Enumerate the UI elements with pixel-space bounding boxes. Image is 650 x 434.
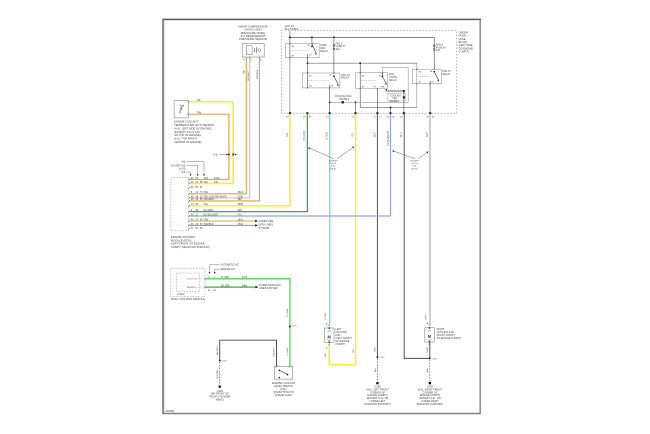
wire: PWR/FAN 85 down to fuse box exit (YEL feed) <box>289 58 291 114</box>
svg-text:410: 410 <box>214 181 219 184</box>
svg-text:100358: 100358 <box>165 409 174 413</box>
svg-text:835: 835 <box>238 209 243 212</box>
svg-text:(V8-S): (V8-S) <box>411 168 418 170</box>
svg-text:COMPT, NEAR FAN SHROUD): COMPT, NEAR FAN SHROUD) <box>171 245 210 249</box>
svg-text:COMPUTER: COMPUTER <box>259 219 274 223</box>
svg-text:BLK: BLK <box>375 347 377 352</box>
wire: DK GRN HVAC serial data <box>206 286 256 288</box>
svg-text:DK GRN: DK GRN <box>303 131 306 141</box>
pin labels PWR/FAN relay <box>292 45 313 57</box>
svg-text:RELAY: RELAY <box>320 50 328 53</box>
svg-text:HVAC CONTROL MODULE: HVAC CONTROL MODULE <box>171 297 205 301</box>
svg-text:COOLT LVL: COOLT LVL <box>186 279 198 281</box>
svg-text:BLK/WHT: BLK/WHT <box>274 346 276 356</box>
module: ECM dashed box <box>171 178 189 231</box>
svg-text:RELAY: RELAY <box>341 77 349 80</box>
svg-text:TAN: TAN <box>197 111 202 114</box>
wire: fuse F1 to FAN LO pin 30 <box>333 50 335 73</box>
svg-text:GRY/WHT: GRY/WHT <box>248 70 250 81</box>
svg-text:DK GRN: DK GRN <box>204 209 214 212</box>
svg-text:YEL: YEL <box>352 132 355 137</box>
svg-text:(6.6L: TOP FRONT: (6.6L: TOP FRONT <box>174 137 197 141</box>
sensor: A/C refrigerant pressure sensor label <box>238 24 267 41</box>
motor M2 right cooling fan <box>428 324 430 326</box>
svg-text:40A: 40A <box>436 49 441 52</box>
svg-text:RADIATOR SUPPORT): RADIATOR SUPPORT) <box>417 403 443 406</box>
svg-text:LINES SYSTEM: LINES SYSTEM <box>259 286 278 290</box>
svg-text:GRY: GRY <box>425 314 427 319</box>
wire: YEL ECT to ECM row 2 <box>189 102 233 184</box>
wire: DK BLU drop inside box <box>390 108 392 114</box>
svg-text:HEAD): HEAD) <box>216 399 224 402</box>
wire: right fan B to ground junction <box>429 343 431 359</box>
wire W6 DK BLU/WHT: fuse box to ECM row 9 <box>190 114 391 216</box>
svg-text:AUTOMATIC A/C: AUTOMATIC A/C <box>221 264 240 267</box>
relay K2 FAN LO RELAY <box>302 73 340 88</box>
svg-text:BLK: BLK <box>375 368 377 372</box>
relay pin tick slashes <box>289 43 435 90</box>
relay K4 FAN HI RELAY <box>412 69 441 84</box>
sensor: A/C refrigerant pressure sensor <box>242 44 264 58</box>
wire: PWR/FAN 87 to relay coil feed rail <box>307 58 309 64</box>
label: PWR/FAN RELAY <box>320 44 328 53</box>
wire: FAN HI coil return <box>416 84 418 108</box>
svg-text:YEL: YEL <box>204 181 209 184</box>
svg-text:TAN: TAN <box>242 69 245 74</box>
svg-text:2514: 2514 <box>238 191 244 194</box>
wire W4 YEL: fuse box to left fan pin B <box>329 114 355 364</box>
svg-text:ORN/BLK: ORN/BLK <box>204 198 215 201</box>
svg-text:473: 473 <box>238 213 243 216</box>
svg-text:TAN: TAN <box>204 177 209 180</box>
svg-text:OF ENGINE COMPT): OF ENGINE COMPT) <box>437 336 462 340</box>
pin numbers below fuse box <box>286 116 435 119</box>
svg-text:ENGINE COOLANT: ENGINE COOLANT <box>174 120 198 124</box>
node: bus junction C <box>333 36 335 38</box>
svg-text:(4.6L: LEFT SIDE OF ENGINE): (4.6L: LEFT SIDE OF ENGINE) <box>174 126 212 130</box>
note: EXCEPT 5.3L & 6.0L (right) <box>411 161 420 171</box>
diode D1 COOLING FAN DIODE 1 <box>388 93 406 101</box>
wire: BLK/WHT switch to G103 <box>220 340 277 366</box>
svg-text:(EXCEPT 4.6L & 6.6L:: (EXCEPT 4.6L & 6.6L: <box>174 130 201 134</box>
rotated wire colour labels below fuse box <box>286 130 429 146</box>
connector C100 <box>377 356 379 358</box>
label: FAN LO RELAY <box>341 74 350 80</box>
underhood fuse block dashed box <box>281 31 456 114</box>
svg-text:380: 380 <box>238 198 243 201</box>
svg-text:SURGE TANK): SURGE TANK) <box>275 393 293 397</box>
node: bus junction A <box>289 36 291 38</box>
splice C110 on LT GRN <box>289 326 291 328</box>
ECM pin row ticks <box>188 179 190 230</box>
wire: TAN/BLK serial data row 11 <box>190 224 256 226</box>
svg-text:BLK: BLK <box>427 368 429 372</box>
module: HVAC control module dashed box <box>171 269 205 297</box>
label: ECT sensor <box>174 120 214 144</box>
svg-text:BLK/WHT: BLK/WHT <box>217 369 219 379</box>
wire: FAN LO 87 to diode 2 <box>329 88 331 102</box>
wire: ORN/BLK pressure sensor to ECM row 6 <box>190 59 260 201</box>
svg-text:(V8-S): (V8-S) <box>330 168 337 170</box>
svg-text:DIODE 1: DIODE 1 <box>390 100 400 103</box>
svg-text:TAN: TAN <box>204 191 209 194</box>
wire: TAN pressure sensor to ECM row 4 <box>190 59 247 194</box>
motor M1 left cooling fan <box>328 325 330 327</box>
node: coil rail junction at 87 <box>307 62 309 64</box>
svg-text:BLK: BLK <box>427 348 429 353</box>
svg-text:LT GRN: LT GRN <box>221 277 230 279</box>
label: ECM <box>171 235 210 249</box>
inline connector dashes to G103 <box>219 362 221 385</box>
wire: gray loop diode2 to FAN CNTRL pin 30 <box>356 68 409 103</box>
svg-text:LT GRN: LT GRN <box>287 308 289 316</box>
page frame <box>163 19 480 413</box>
label: FAN CNTRL RELAY <box>389 73 398 82</box>
connector C105 <box>429 358 431 360</box>
svg-text:1479: 1479 <box>242 277 248 279</box>
svg-text:M: M <box>327 334 331 339</box>
wire: fuse F2 to FAN HI pin 30 <box>433 50 435 69</box>
svg-text:RADIATOR SUPPORT): RADIATOR SUPPORT) <box>364 403 390 406</box>
wire W7 BLK: fuse box to G109 junction <box>404 114 430 358</box>
wire: TAN ECT to ECM row 1 <box>189 114 229 179</box>
svg-text:COMPT): COMPT) <box>335 342 345 346</box>
svg-text:EXCEPT 4.6L: EXCEPT 4.6L <box>172 165 187 167</box>
svg-text:5.3L: 5.3L <box>213 154 218 156</box>
svg-text:DK BLU/WHT: DK BLU/WHT <box>204 213 220 216</box>
svg-text:DK GRN: DK GRN <box>221 285 230 287</box>
svg-text:COMPT): COMPT) <box>459 49 469 53</box>
note: EXCEPT 5.3L & 6.0L (left) <box>329 161 338 171</box>
wire: B+ bus <box>289 31 291 38</box>
relay K3 FAN CNTRL RELAY <box>356 73 388 89</box>
wire: bus to PWR/FAN relay pin 30 <box>311 37 313 44</box>
label: UNDER HOOD FUSE BLOCK <box>459 31 474 54</box>
wire: GRY pressure sensor to ECM row 5 <box>190 59 250 198</box>
svg-text:87A: 87A <box>380 85 384 88</box>
svg-text:SW(SRL) L: SW(SRL) L <box>187 287 198 289</box>
fuse F2 FAN-2 FUSE 60 40A <box>433 37 435 45</box>
svg-text:LT BLU: LT BLU <box>326 132 329 140</box>
wire: bus to PWR/FAN relay pin 86 <box>289 37 291 43</box>
svg-text:SYSTEM: SYSTEM <box>259 226 270 230</box>
svg-text:4.6L: 4.6L <box>181 162 186 164</box>
svg-text:LOGIC: LOGIC <box>177 293 185 296</box>
wire W1 YEL: fuse box to ECM row 7 <box>190 114 290 206</box>
pins of pressure sensor <box>246 57 248 59</box>
wire W2 DK GRN: fuse box to ECM row 8 <box>190 114 308 211</box>
wire: FAN CNTRL 87 down (BLK to G108) <box>376 89 378 114</box>
svg-text:2760: 2760 <box>214 177 220 180</box>
node: fuse box bottom pin ticks <box>289 112 431 114</box>
wire W8 GRY: fuse box to right fan pin A <box>429 114 431 325</box>
label: right cooling fan <box>437 327 462 340</box>
svg-text:5986: 5986 <box>238 203 244 206</box>
label: FAN HI RELAY <box>443 70 451 76</box>
wire: diode2 left leg down (LT BLU exit) <box>329 102 331 113</box>
switch: engine coolant level switch <box>274 366 292 379</box>
wire W3 LT BLU: fuse box to left fan pin A <box>329 114 331 325</box>
wire: diode2 right leg down (YEL exit) <box>355 102 357 113</box>
wire: 87A arm to diode 1 <box>385 89 387 91</box>
fuse F1 FAN 1 FUSE 57 40A <box>333 37 335 44</box>
svg-text:BLK: BLK <box>400 132 403 137</box>
svg-text:YEL: YEL <box>286 132 289 137</box>
svg-text:BLK: BLK <box>373 132 376 137</box>
wire W5 BLK: fuse box to G108 <box>376 114 378 357</box>
svg-text:40A: 40A <box>336 48 341 51</box>
svg-text:DATA LINES: DATA LINES <box>259 222 274 226</box>
svg-text:TEMPERATURE (ECT) SENSOR: TEMPERATURE (ECT) SENSOR <box>174 123 214 127</box>
svg-text:ORN/BLK: ORN/BLK <box>257 69 259 79</box>
svg-text:LT BLU: LT BLU <box>325 312 327 320</box>
ECM row 1 text: 62 57 TAN 2760 <box>191 177 244 230</box>
sensor: ECT sensor <box>174 101 188 118</box>
wire: FAN HI 87 down (GRY to right fan) <box>429 84 431 114</box>
node: DK BLU junction <box>390 107 392 109</box>
ground G109 <box>429 382 431 384</box>
wire: coil feed rail <box>308 62 417 64</box>
label: left cooling fan <box>335 327 352 346</box>
ground G103 <box>219 386 221 388</box>
ground G108 <box>376 382 378 384</box>
svg-text:& 4.3L: & 4.3L <box>179 169 186 171</box>
label: computer data lines (ECM) <box>259 219 274 230</box>
svg-text:BLK/WHT: BLK/WHT <box>217 345 219 355</box>
wire: FAN CNTRL coil return rail <box>360 89 417 108</box>
connector C208 <box>219 360 221 362</box>
ECM column notes <box>172 162 187 174</box>
wire: LT GRN HVAC to coolant level switch <box>206 279 290 367</box>
pin ticks HVAC <box>204 278 206 280</box>
pins of ECT sensor <box>187 101 189 103</box>
svg-text:GRY: GRY <box>426 131 429 137</box>
svg-text:ALL TIMES: ALL TIMES <box>285 27 299 31</box>
svg-text:RELAY: RELAY <box>443 73 451 76</box>
svg-text:5986: 5986 <box>242 285 248 287</box>
rotated labels on sensor wires <box>242 69 259 81</box>
svg-text:YEL: YEL <box>204 203 209 206</box>
svg-text:ON TOP OF ENGINE): ON TOP OF ENGINE) <box>174 133 201 137</box>
svg-text:M: M <box>428 334 432 339</box>
svg-text:CENTER OF ENGINE): CENTER OF ENGINE) <box>174 140 202 144</box>
svg-text:RELAY: RELAY <box>389 79 397 82</box>
node: coil rail junction at FAN CNTRL <box>359 62 361 64</box>
svg-text:4.3L: 4.3L <box>181 172 186 174</box>
svg-text:LT GRN: LT GRN <box>287 347 289 355</box>
wire: TAN class 2 serial data row 10 <box>190 220 256 222</box>
node: bus junction B <box>311 36 313 38</box>
relay K1 PWR/FAN RELAY <box>285 44 319 58</box>
svg-text:DIODE 2: DIODE 2 <box>339 98 350 101</box>
svg-text:DK BLU/WHT: DK BLU/WHT <box>387 130 390 146</box>
svg-text:PRESSURE SENSOR: PRESSURE SENSOR <box>239 37 267 41</box>
svg-text:YEL: YEL <box>197 100 202 102</box>
svg-text:MANUAL A/C: MANUAL A/C <box>221 268 236 271</box>
